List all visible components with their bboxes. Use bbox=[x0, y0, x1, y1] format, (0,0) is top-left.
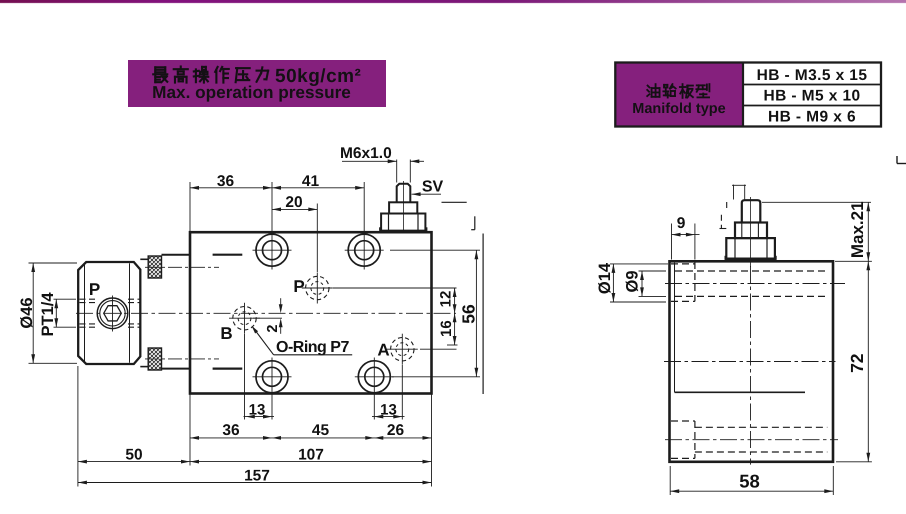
svg-text:36: 36 bbox=[222, 422, 240, 439]
svg-text:13: 13 bbox=[249, 401, 266, 418]
svg-text:P: P bbox=[293, 277, 304, 296]
svg-text:HB - M5 x 10: HB - M5 x 10 bbox=[764, 87, 861, 104]
svg-text:O-Ring P7: O-Ring P7 bbox=[276, 339, 349, 356]
svg-text:2: 2 bbox=[265, 325, 281, 333]
svg-text:Ø46: Ø46 bbox=[18, 297, 36, 328]
svg-text:Manifold type: Manifold type bbox=[632, 101, 725, 117]
svg-text:45: 45 bbox=[312, 422, 330, 439]
svg-text:16: 16 bbox=[438, 320, 455, 337]
svg-text:Ø14: Ø14 bbox=[596, 262, 614, 294]
svg-text:107: 107 bbox=[298, 446, 324, 463]
svg-text:56: 56 bbox=[459, 304, 479, 324]
svg-text:58: 58 bbox=[739, 470, 760, 491]
svg-text:SV: SV bbox=[422, 179, 444, 196]
svg-text:B: B bbox=[220, 324, 232, 343]
svg-text:PT1/4: PT1/4 bbox=[39, 292, 57, 337]
svg-text:20: 20 bbox=[285, 194, 302, 211]
svg-text:Ø9: Ø9 bbox=[624, 270, 642, 292]
svg-text:Max. operation pressure: Max. operation pressure bbox=[152, 82, 351, 102]
svg-text:72: 72 bbox=[847, 353, 867, 373]
svg-text:157: 157 bbox=[244, 467, 270, 484]
svg-text:50: 50 bbox=[125, 446, 142, 463]
svg-text:HB - M3.5 x 15: HB - M3.5 x 15 bbox=[757, 67, 868, 84]
svg-text:P: P bbox=[89, 280, 100, 299]
svg-text:HB - M9 x 6: HB - M9 x 6 bbox=[768, 108, 856, 125]
svg-text:12: 12 bbox=[438, 291, 455, 308]
svg-text:13: 13 bbox=[380, 401, 397, 418]
svg-text:9: 9 bbox=[677, 215, 686, 232]
svg-text:36: 36 bbox=[217, 173, 235, 190]
svg-text:A: A bbox=[377, 341, 389, 360]
svg-text:Max.21: Max.21 bbox=[848, 201, 867, 258]
svg-text:M6x1.0: M6x1.0 bbox=[340, 145, 392, 162]
svg-text:41: 41 bbox=[302, 173, 320, 190]
svg-text:26: 26 bbox=[387, 422, 405, 439]
